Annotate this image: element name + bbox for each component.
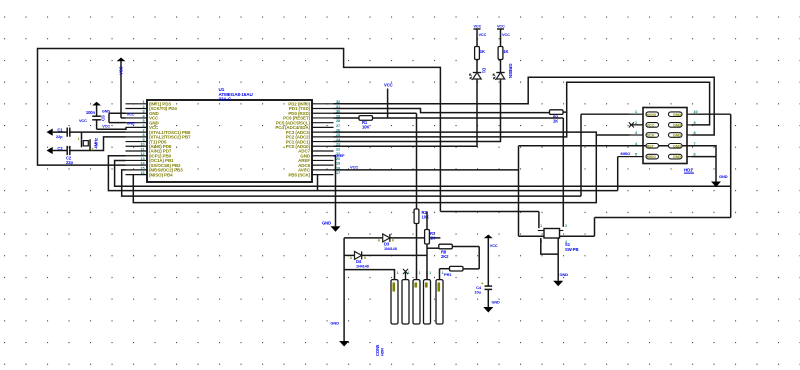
resistor R2 1K horizontal [550,110,564,115]
diode D4 1N4148 [355,251,362,259]
svg-text:C1: C1 [57,128,63,133]
wire R8 to pin4 drop [452,246,479,248]
wire SCK drop to PB0 line [317,175,319,191]
svg-text:D3: D3 [384,242,390,247]
U1 left pin 3 GND [126,112,148,114]
svg-text:2: 2 [92,148,94,152]
svg-text:VCC: VCC [490,244,498,248]
svg-text:PR1: PR1 [444,272,452,277]
svg-text:1K: 1K [480,49,485,54]
resistor R1 10K on reset [359,116,373,121]
wire switch drop [538,212,540,229]
svg-text:8: 8 [142,133,144,137]
svg-text:1K: 1K [430,236,435,241]
HD1 left pin 1 [630,113,643,115]
svg-text:GND: GND [719,174,728,179]
wire AVCC long line to header pin4 drop [334,169,519,171]
svg-text:(MISO) PB4: (MISO) PB4 [149,172,173,177]
connector bar J2 [402,280,409,324]
svg-text:16: 16 [140,171,144,175]
svg-text:SW-PB: SW-PB [565,247,578,252]
U1 right pin 31 PD1 (TXD) [312,108,334,110]
svg-text:VCC: VCC [119,66,124,75]
svg-text:9: 9 [142,138,144,142]
svg-text:2: 2 [142,105,144,109]
svg-text:D4: D4 [356,259,362,264]
svg-text:1K: 1K [503,49,508,54]
wire big loop from top-left to reset net [38,49,441,212]
switch S1 [544,229,560,239]
svg-text:1: 1 [397,271,399,275]
svg-text:22p: 22p [66,160,73,165]
power VCC arrow for C5 [92,102,101,106]
wire bar1 feed [344,270,394,280]
svg-text:5: 5 [635,153,637,157]
svg-text:6: 6 [142,124,144,128]
ground GND under U1 [331,226,341,232]
resistor R9 horizontal lower [440,268,450,270]
svg-text:GND: GND [330,321,339,326]
svg-text:1: 1 [419,271,421,275]
wire PC0 to LED1 [334,79,478,146]
crystal Y1 [81,139,83,147]
resistor R5 1K vertical [475,47,480,60]
U1 left pin 9 (T1) PD5 [126,141,148,143]
svg-text:13: 13 [140,157,144,161]
svg-text:HD1: HD1 [684,168,693,173]
svg-text:HDR: HDR [381,348,385,356]
wire R2 up over to header pin9 [563,82,710,125]
ground under switch [553,281,563,287]
svg-text:3: 3 [142,110,144,114]
svg-text:12: 12 [140,152,144,156]
U1 left pin 2 (XCK/T0) PD4 [126,108,148,110]
svg-text:MOSI: MOSI [647,113,656,117]
wire PB0 staircase to header pin5 line [108,156,617,191]
U1 right pin 28 PC5 (ADC5/SCL) [312,122,334,124]
svg-text:10: 10 [140,143,144,147]
svg-text:PB5 (SCK): PB5 (SCK) [288,172,310,177]
U1 right pin 25 PC2 (ADC2) [312,136,334,138]
U1 left pin 16 (MISO) PB4 [126,174,148,176]
svg-text:11: 11 [141,147,145,151]
wire header pin5 drop to PB0 line [617,157,619,191]
op-amp U1 ATMEGA8-16AU box [147,100,312,182]
U1 right pin 32 PD2 (INT0) [312,103,334,105]
ground for header [711,182,721,188]
HD1 right pin 7 [687,145,692,147]
wire header pin6 to gnd line [692,156,717,158]
U1 right pin 18 AVCC [312,169,334,171]
svg-text:MISO: MISO [621,151,631,156]
wire switch pin2 gnd tie [541,238,558,254]
wire PD1 TXD to R2 [334,109,550,113]
HD1 left pin 3 [630,134,643,136]
svg-text:GND: GND [673,113,681,117]
svg-text:VCC: VCC [102,124,110,128]
U1 right pin 17 PB5 (SCK) [312,174,334,176]
svg-text:22: 22 [336,147,340,151]
svg-text:8: 8 [694,131,696,135]
HD1 left pin 2 [630,124,643,126]
U1 left pin 11 (AIN1) PD7 [126,150,148,152]
resistor R8 horizontal [439,244,453,249]
wire PB3 staircase to header pin3 vertical [122,170,581,196]
svg-text:VCC: VCC [127,112,135,116]
U1 right pin 23 PC0 (ADC0) [312,145,334,147]
wire D4 junction down to bar4 [426,255,428,279]
capacitor C1 22p [66,128,68,137]
svg-text:GND: GND [492,301,500,305]
svg-text:VCC: VCC [502,33,510,37]
svg-text:7: 7 [142,129,144,133]
svg-text:1: 1 [540,224,542,228]
wire switch to ground [557,238,559,281]
svg-text:AREF: AREF [334,153,345,158]
wire PC3 long to header pin3 [334,132,630,135]
U1 left pin 1 (INT1) PD3 [126,103,148,105]
wire bar5 feed [439,269,441,280]
svg-text:GND: GND [322,221,331,226]
wire PC2 line to 566 drop [334,112,567,137]
svg-text:22p: 22p [56,134,63,139]
HD1 right pin 6 [687,156,692,158]
svg-text:10K: 10K [422,215,429,220]
svg-text:5: 5 [142,119,144,123]
svg-text:1K: 1K [553,119,558,124]
wire mid jog to 596 [519,235,595,237]
U1 right pin 24 PC1 (ADC1) [312,141,334,143]
wire PD2 INT0 long line to header pin8 [334,77,715,135]
power VCC bar for LED D1 [474,28,481,30]
connector bar J3 [413,280,420,324]
capacitor C5 100n [92,115,101,117]
svg-text:C2: C2 [57,146,63,151]
svg-text:GND: GND [673,134,681,138]
wire header pin4 vertical down to R4 row [519,145,692,147]
U1 right pin 29 PC6 (RESET) [312,117,334,119]
ground under C4 [483,307,493,313]
svg-text:VCC: VCC [474,25,482,29]
wire PB4 staircase to header pin1 [133,135,596,203]
ground bottom left [339,341,349,347]
svg-text:1N4148: 1N4148 [356,265,369,269]
svg-text:RST: RST [647,144,655,148]
svg-text:3: 3 [635,131,637,135]
diode D3 1N4148 [383,234,390,242]
svg-text:1: 1 [408,271,410,275]
ground arrow left C2 [47,147,53,154]
wire crystal plates to nets [81,132,83,139]
svg-text:1: 1 [442,271,444,275]
wire pin10 vertical extension [730,186,732,217]
svg-text:1N4148: 1N4148 [384,247,397,251]
svg-text:100n: 100n [86,110,96,115]
svg-text:VCC: VCC [497,25,505,29]
power VCC bar for LED GREEN [497,28,504,30]
LED D1 [473,72,481,74]
wire link up to pin10 run [594,218,596,237]
svg-text:27: 27 [336,124,340,128]
svg-text:10K: 10K [362,124,369,129]
svg-text:GREEN: GREEN [508,64,513,78]
U1 right pin 30 PD0 (RXD) [312,112,334,114]
svg-text:SCK: SCK [647,134,655,138]
svg-text:CON5: CON5 [375,344,380,356]
U1 left pin 8 (XTAL2/TOSC2) PB7 [126,136,148,138]
wire PB1 staircase to header pin10 [115,114,731,186]
svg-text:VCC: VCC [479,33,487,37]
svg-text:9: 9 [694,121,696,125]
svg-text:VCC: VCC [79,119,87,123]
U1 right pin 21 GND [312,155,334,157]
HD1 pin2 no connect [630,124,643,126]
svg-text:4MHz: 4MHz [94,138,99,149]
HD1 right pin 8 [687,134,692,136]
svg-text:3: 3 [565,224,567,228]
U1 right pin 27 PC4 (ADC4/SDA) [312,126,334,128]
U1 left pin 14 (SS/OC1B) PB2 [126,164,148,166]
svg-text:17: 17 [336,171,340,175]
ground arrow left C1 [47,129,53,136]
wire diode D4 row [344,254,354,256]
wire GND rows 3 and 5 tie [109,112,126,114]
wire PR1 right to riser [463,268,479,270]
power VCC arrow top [117,58,126,62]
svg-text:GND: GND [127,122,135,126]
wire pin10 stub [692,113,731,115]
wire pin1 stub [581,113,630,115]
U1 left pin 4 VCC [126,117,148,119]
svg-text:VCC: VCC [647,124,655,128]
connector HD1 box [643,108,687,164]
HD1 right pin 9 [687,124,692,126]
svg-text:19: 19 [336,162,340,166]
wire PC1 line to LED2 [334,79,501,142]
U1 left pin 5 GND [126,122,148,124]
power VCC bottom [484,235,493,239]
wire D3 to R3 vertical [390,237,441,239]
wire C2 to XTAL2 via jog [70,137,126,151]
capacitor C2 22p [66,146,68,155]
svg-text:28: 28 [336,119,340,123]
U1 right pin 20 AREF [312,159,334,161]
wire gnd rail vertical left [343,238,345,341]
U1 left pin 13 (OC1A) PB1 [126,159,148,161]
connector bar J4 [424,280,431,324]
svg-text:GND: GND [673,144,681,148]
U1 left pin 6 VCC [126,126,148,128]
wire drop to PR1 [478,247,480,269]
U1 left pin 12 (ICP1) PB0 [126,155,148,157]
wire GND pin down [334,156,336,227]
wire reset loop bottom run to switch and header [440,211,539,213]
U1 right pin 26 PC3 (ADC3) [312,131,334,133]
wire PD0 RXD down to R3 chain [334,112,417,114]
svg-text:1: 1 [635,110,637,114]
HD1 right pin 10 [687,113,692,115]
wire C1 to XTAL1 [70,131,126,133]
svg-text:GND: GND [673,155,681,159]
U1 right pin 19 ADC6 [312,164,334,166]
resistor R7 vertical mid [426,212,428,230]
svg-text:2K2: 2K2 [441,254,449,259]
svg-text:GND: GND [560,272,569,277]
svg-text:1: 1 [142,100,144,104]
svg-text:GND: GND [102,109,110,113]
svg-text:GND: GND [673,124,681,128]
svg-text:VCC: VCC [384,83,393,88]
resistor R3 10K vertical [414,209,419,224]
wire D4 to R5 vertical [362,254,427,256]
wire long run to header pin10 vertical [595,217,731,219]
wire RESET row to R1 [334,117,360,119]
U1 left pin 10 (AIN0) PD6 [126,145,148,147]
LED GREEN [496,72,504,74]
wire bar2 nc stub [405,272,407,280]
svg-text:10u: 10u [474,290,481,295]
wire R1 to VCC tap and switch [373,117,564,119]
U1 right pin 22 ADC7 [312,150,334,152]
HD1 left pin 4 [630,145,643,147]
wire C5 to VCC pin row6 [97,127,126,129]
resistor R6 1K vertical [498,47,503,60]
svg-text:+: + [481,281,484,286]
svg-text:C5: C5 [101,115,106,121]
svg-text:32A-C: 32A-C [219,97,233,102]
capacitor C4 100u electrolytic [485,285,493,287]
svg-text:1: 1 [429,271,431,275]
svg-text:15: 15 [140,166,144,170]
svg-text:VCC: VCC [350,165,358,170]
U1 left pin 7 (XTAL1/TOSC1) PB6 [126,131,148,133]
U1 left pin 15 (MOSI/OC2) PB3 [126,169,148,171]
wire header pin7 to gnd [692,146,717,182]
wire pin1 vertical to MOSI line [580,114,582,196]
svg-text:MISO: MISO [647,155,656,159]
connector bar J1 [391,280,398,324]
connector bar J5 [436,280,443,324]
HD1 left pin 5 [630,156,643,158]
svg-text:D1: D1 [482,68,487,74]
svg-text:1: 1 [78,137,80,141]
wire diode D3 row [344,237,383,239]
